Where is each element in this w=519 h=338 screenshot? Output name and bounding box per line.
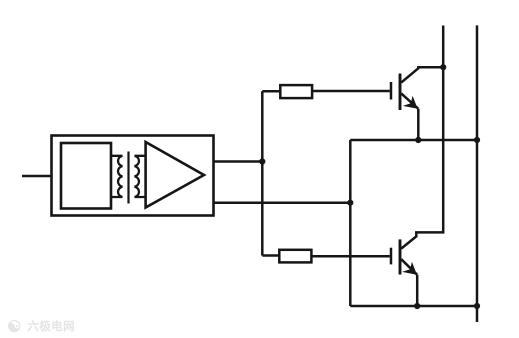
transformer T1 primary winding	[111, 156, 123, 197]
junction dot Q2 emitter on bottom bus	[414, 303, 420, 309]
watermark logo and text	[7, 317, 75, 337]
transistor Q1 emitter wire with arrow	[401, 93, 418, 108]
junction dot bottom bus to rail B	[474, 303, 480, 309]
rail B (right supply rail)	[476, 25, 479, 322]
driver block outer box	[52, 136, 214, 216]
transistor Q1 gate bar	[390, 82, 393, 100]
transistor Q2 emitter wire with arrow	[401, 259, 417, 275]
node A junction dot	[259, 158, 265, 164]
transformer T1 secondary winding	[135, 156, 146, 197]
node B junction dot	[347, 200, 353, 206]
wire top output of driver to node A	[214, 160, 263, 163]
wire middle vertical line	[349, 140, 352, 306]
junction dot bus to rail B	[474, 137, 480, 143]
junction dot Q1 emitter on bus	[415, 137, 421, 143]
resistor R2 (bottom)	[279, 250, 311, 263]
op-amp buffer triangle	[146, 142, 204, 208]
junction dot Q1 collector on rail A	[440, 64, 446, 70]
wire middle output of driver to node B	[214, 201, 351, 204]
rail A (left supply rail)	[401, 26, 443, 249]
wire emitter bus of Q1 (horizontal)	[350, 139, 477, 142]
transistor Q1 body bar	[399, 74, 402, 111]
wire bottom bus (horizontal)	[350, 305, 477, 308]
wire corner to resistor R1	[262, 90, 280, 93]
wire corner to resistor R2	[262, 254, 279, 257]
resistor R1 (top)	[280, 85, 312, 98]
wire left vertical bias line	[261, 91, 264, 255]
wire R1 to gate of Q1	[312, 90, 390, 93]
input signal block (inner box)	[61, 143, 111, 209]
transformer T1 core	[127, 152, 129, 204]
transistor Q2 body bar	[399, 239, 402, 274]
transistor Q1 collector wire	[401, 67, 443, 82]
wire input lead	[22, 175, 52, 178]
wire R2 to gate of Q2	[311, 255, 389, 258]
transistor Q2 gate bar	[390, 248, 393, 265]
